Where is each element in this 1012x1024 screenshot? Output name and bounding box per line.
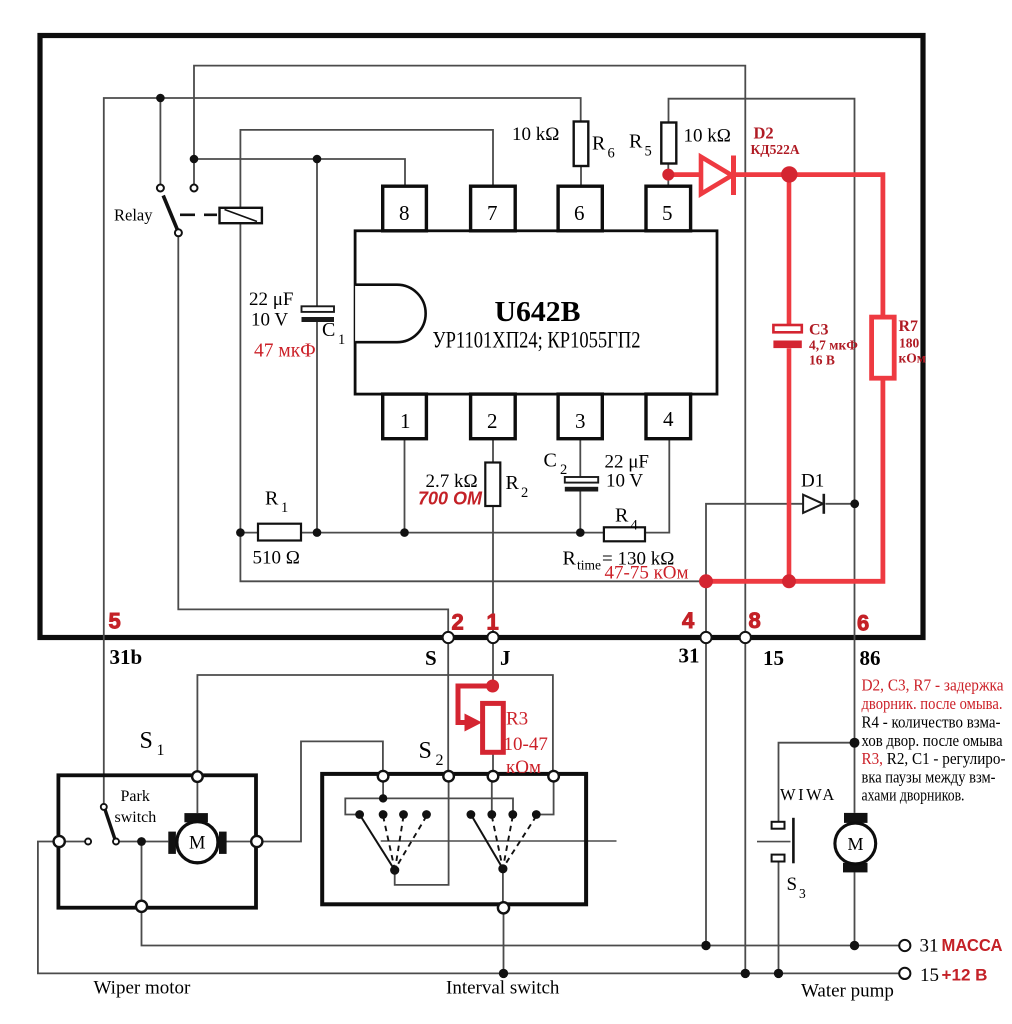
resistor R1: [258, 524, 301, 541]
svg-text:3: 3: [575, 409, 586, 433]
node: park switch to motor junction: [137, 837, 146, 846]
svg-text:86: 86: [860, 646, 881, 670]
svg-text:47-75 кОм: 47-75 кОм: [605, 563, 689, 584]
resistor R7: [872, 317, 895, 378]
wire: relay NO contact to top rail and terminal 15: [194, 66, 745, 970]
wire: R6 bottom to pin 6: [580, 166, 582, 186]
IC pin 2: [471, 394, 516, 439]
label S3: [787, 874, 807, 901]
wire: pin 8 rail: [194, 159, 405, 186]
label R1: [265, 488, 288, 517]
S2 left selector fan: [355, 810, 431, 875]
S1 terminal bottom: [136, 901, 147, 912]
pin number 4 red: [682, 608, 695, 633]
pin number 6 red: [857, 611, 869, 636]
label S2: [419, 738, 444, 769]
svg-text:D1: D1: [801, 471, 824, 492]
svg-text:D2: D2: [754, 124, 774, 143]
value 700 OM red: [418, 489, 483, 509]
resistor R2: [485, 463, 500, 507]
wire: terminal 31 drop to earth line: [705, 581, 707, 945]
wire: R3 bottom to interval switch: [492, 752, 494, 774]
svg-text:5: 5: [662, 201, 673, 225]
svg-text:S: S: [140, 728, 153, 754]
wire: R1 net horizontal to pin 4: [240, 439, 669, 533]
wire: pin 1 drop: [404, 439, 406, 533]
svg-text:M: M: [189, 834, 205, 854]
IC pin 7: [471, 186, 516, 231]
capacitor C3: [773, 325, 801, 348]
value 510 Ohm for R1: [253, 548, 300, 569]
IC U1 body: [355, 231, 717, 394]
S2 terminal 1: [378, 771, 389, 782]
svg-text:180: 180: [899, 336, 920, 351]
relay contact circle left: [157, 185, 164, 192]
S2 right selector fan: [467, 810, 541, 873]
value 22uF 10V for C1: [249, 289, 294, 331]
svg-text:C: C: [322, 319, 335, 341]
S2 terminal bottom: [498, 902, 509, 913]
svg-text:31: 31: [679, 644, 700, 668]
label Water pump: [801, 981, 894, 1002]
motor M wiper: [168, 813, 226, 863]
svg-text:15: 15: [920, 965, 939, 986]
svg-text:КД522А: КД522А: [751, 142, 800, 157]
svg-text:Interval switch: Interval switch: [446, 978, 560, 999]
node: WIWA junction on 86 wire: [850, 738, 860, 748]
node: R1 left: [236, 528, 245, 537]
label R6: [592, 133, 615, 162]
svg-text:D2, C3, R7 - задержка: D2, C3, R7 - задержка: [862, 676, 1005, 695]
label WIWA: [780, 785, 837, 804]
wire red: D2 output rail to R7 and R-time node: [670, 175, 883, 582]
svg-text:2: 2: [521, 485, 528, 501]
interval switch box S2: [322, 774, 586, 904]
label R5: [629, 131, 652, 160]
wire: motor M right brush to S1 right terminal: [226, 841, 251, 843]
node: relay NO / pin8 rail: [190, 155, 199, 164]
wire: R5 top rail over to terminal 86 and water pump: [669, 99, 855, 813]
wire: relay common contact drop: [159, 98, 161, 184]
terminal label 31 MACCA: [920, 935, 1003, 957]
node: C1 bottom: [313, 528, 322, 537]
value 2.7 kOhm for R2: [426, 471, 478, 492]
svg-text:4: 4: [682, 608, 695, 633]
wire: D1 cathode link: [826, 503, 855, 505]
switch S3: [757, 818, 793, 864]
node red: C3 bottom junction: [782, 574, 796, 588]
wire: pin 5 stub: [667, 163, 669, 186]
IC pin 6: [558, 186, 602, 231]
label R2: [506, 472, 529, 501]
svg-text:7: 7: [487, 201, 498, 225]
wire: pin 3 to C2: [579, 439, 581, 477]
wire: S2 input 4 drop: [536, 778, 553, 815]
S2 terminal 4: [548, 771, 559, 782]
svg-text:R: R: [506, 472, 520, 494]
pin name S: [425, 646, 437, 670]
relay arm: [163, 196, 182, 237]
relay actuator dashed link: [180, 214, 217, 217]
svg-text:31: 31: [920, 936, 939, 957]
svg-text:S: S: [425, 646, 437, 670]
wire: C1 branch upper: [316, 159, 318, 306]
park switch contacts: [85, 804, 119, 845]
svg-text:R: R: [563, 548, 577, 570]
resistor R6: [574, 122, 589, 167]
svg-text:6: 6: [608, 146, 615, 162]
svg-text:R: R: [265, 488, 279, 510]
svg-text:M: M: [848, 834, 864, 854]
wire: park switch feed inside S1: [65, 842, 169, 903]
node: S2 input1 junction: [379, 794, 387, 802]
wire: wiper motor bottom to earth line: [142, 908, 900, 946]
svg-text:R: R: [592, 133, 606, 155]
label D1: [801, 471, 824, 492]
pin name 31b: [110, 645, 143, 669]
wire: pin 2 / J wire through R2: [492, 439, 494, 684]
node red: D2 cathode junction: [781, 166, 797, 182]
relay contact circle right: [191, 185, 198, 192]
svg-text:дворник. после омыва.: дворник. после омыва.: [862, 694, 1003, 713]
wire: S2 input 3 drop: [491, 778, 493, 815]
potentiometer R3 red: [458, 680, 503, 753]
svg-text:510 Ω: 510 Ω: [253, 548, 300, 569]
terminal circle 31 on box edge: [700, 632, 711, 643]
svg-text:1: 1: [281, 500, 288, 516]
svg-text:Relay: Relay: [114, 206, 153, 225]
svg-text:R3, R2, C1 - регулиро-: R3, R2, C1 - регулиро-: [862, 749, 1006, 768]
wire: relay coil top to pin 7: [240, 130, 493, 208]
svg-text:switch: switch: [115, 809, 157, 826]
S2 terminal 3: [488, 771, 499, 782]
svg-text:6: 6: [857, 611, 869, 636]
svg-text:10 kΩ: 10 kΩ: [512, 124, 559, 145]
label C3 red: [809, 322, 858, 368]
wire red: C3 branch: [787, 175, 792, 582]
IC pin 4: [646, 394, 691, 439]
wire: motor M top feed: [196, 779, 198, 813]
node: 15 to +12V line: [741, 969, 750, 978]
pin name 31: [679, 644, 700, 668]
IC pin 3: [558, 394, 602, 439]
svg-text:10 V: 10 V: [251, 310, 288, 331]
svg-text:WIWA: WIWA: [780, 785, 837, 804]
wire: C2 to R1 net: [579, 492, 581, 533]
relay coil: [220, 208, 262, 223]
svg-text:4: 4: [663, 407, 674, 431]
svg-text:700 ОМ: 700 ОМ: [418, 489, 483, 509]
wire: wiper motor left terminal to +12V line: [38, 842, 899, 974]
S1 terminal left: [54, 836, 65, 847]
svg-text:5: 5: [109, 609, 121, 634]
svg-text:8: 8: [749, 608, 761, 633]
label Relay: [114, 206, 153, 225]
svg-text:J: J: [500, 646, 511, 670]
wire: wiper motor right to S2 first input: [258, 741, 383, 841]
capacitor C1: [302, 306, 335, 322]
svg-text:22 μF: 22 μF: [605, 452, 650, 473]
svg-text:МАССА: МАССА: [942, 935, 1003, 955]
pin name 86: [860, 646, 881, 670]
IC pin 5: [646, 186, 691, 231]
svg-text:2: 2: [560, 462, 567, 478]
svg-text:Wiper motor: Wiper motor: [94, 978, 192, 999]
svg-text:R: R: [615, 505, 629, 527]
svg-text:C3: C3: [809, 322, 829, 339]
wiper motor box S1: [58, 775, 256, 907]
wire: water pump bottom to earth line: [854, 872, 856, 945]
svg-text:6: 6: [574, 201, 585, 225]
svg-text:Water pump: Water pump: [801, 981, 894, 1002]
svg-text:4,7 мкФ: 4,7 мкФ: [809, 338, 858, 353]
svg-text:31b: 31b: [110, 645, 143, 669]
svg-text:R: R: [629, 131, 643, 153]
IC pin 8: [383, 186, 427, 231]
node red: pin 5 junction: [662, 169, 674, 181]
svg-text:1: 1: [400, 409, 411, 433]
svg-text:15: 15: [763, 646, 784, 670]
svg-text:Park: Park: [121, 788, 150, 805]
wire: C1 branch lower: [316, 322, 318, 533]
wire: D1 anode link: [706, 504, 803, 582]
node: interval to +12V line: [499, 969, 508, 978]
svg-text:4: 4: [631, 518, 639, 534]
diode D2: [701, 156, 734, 196]
S1 terminal right: [251, 836, 262, 847]
node: S3 to +12V line: [774, 969, 783, 978]
svg-text:ахами дворников.: ахами дворников.: [862, 786, 965, 805]
pin number 1 red: [487, 610, 499, 635]
label R4: [615, 505, 639, 534]
value Rtime: [563, 548, 675, 573]
terminal circle J on box edge: [487, 632, 498, 643]
node: C2 bottom: [576, 528, 585, 537]
node: C1 top tap: [313, 155, 322, 164]
wire: interval switch output to +12V line: [503, 908, 505, 974]
node: D1 cathode junction: [850, 499, 859, 508]
svg-text:22 μF: 22 μF: [249, 289, 294, 310]
svg-text:2: 2: [436, 752, 444, 769]
svg-text:2: 2: [452, 610, 464, 635]
svg-text:R3: R3: [506, 709, 528, 730]
pin number 2 red: [452, 610, 464, 635]
resistor R4: [604, 527, 645, 541]
svg-text:3: 3: [799, 886, 806, 901]
label Interval switch: [446, 978, 560, 999]
diode D1: [803, 494, 824, 514]
svg-text:R7: R7: [899, 318, 919, 335]
terminal label 15 +12V: [920, 965, 988, 986]
value 22uF 10V for C2: [605, 452, 650, 492]
wire: relay coil bottom down to R-time node: [240, 223, 706, 581]
svg-text:2: 2: [487, 409, 498, 433]
wire: S3 bottom to +12V line: [778, 861, 780, 973]
resistor R5: [661, 123, 676, 164]
node red: R-time node junction: [699, 574, 713, 588]
svg-text:S: S: [787, 874, 798, 895]
svg-text:+12 В: +12 В: [942, 966, 988, 985]
svg-text:1: 1: [157, 742, 165, 759]
pin name 15: [763, 646, 784, 670]
svg-text:R4 - количество взма-: R4 - количество взма-: [862, 713, 1001, 732]
pin number 8 red: [749, 608, 761, 633]
svg-text:10 V: 10 V: [606, 471, 643, 492]
motor M water pump: [835, 813, 876, 872]
IC U1 name: [433, 297, 641, 353]
terminal circle 15 on box edge: [740, 632, 751, 643]
svg-text:10 kΩ: 10 kΩ: [684, 126, 731, 147]
svg-text:5: 5: [645, 144, 652, 160]
node: 31 to earth line: [701, 941, 710, 950]
wire: S2 right pole to bottom terminal: [502, 869, 504, 903]
svg-text:1: 1: [338, 332, 345, 348]
svg-text:кОм: кОм: [506, 757, 541, 778]
value 10 kOhm for R5: [684, 126, 731, 147]
node: pump to earth line: [850, 941, 859, 950]
IC pin 1: [383, 394, 427, 439]
svg-text:УР1101ХП24; КР1055ГП2: УР1101ХП24; КР1055ГП2: [433, 328, 641, 353]
svg-text:U642B: U642B: [495, 297, 581, 328]
capacitor C2: [565, 477, 598, 492]
label S1: [140, 728, 165, 759]
svg-text:16 В: 16 В: [809, 353, 835, 368]
control unit outer box: [40, 36, 923, 638]
wire: WIWA switch S3 to pump node: [779, 743, 855, 822]
label Wiper motor: [94, 978, 192, 999]
wire: 31b rail from R6 top across to park switch pivot: [104, 98, 581, 804]
pin number 5 red: [109, 609, 121, 634]
svg-text:C: C: [544, 450, 557, 472]
label R7 red: [899, 318, 926, 366]
value 47-75 kOm red: [605, 563, 689, 584]
svg-text:time: time: [577, 558, 601, 573]
wire: S2 wiper stub line: [381, 840, 617, 842]
annotation note block: [862, 676, 1006, 805]
terminal circle S on box edge: [443, 632, 454, 643]
label C1: [322, 319, 345, 348]
pin name J: [500, 646, 511, 670]
wire: S2 input 1 to contact row: [345, 778, 513, 815]
terminal circle 15 +12V: [899, 968, 910, 979]
S1 terminal top: [192, 771, 203, 782]
value 47 mkF red: [254, 341, 316, 362]
svg-text:47 мкФ: 47 мкФ: [254, 341, 316, 362]
svg-text:10-47: 10-47: [504, 734, 548, 755]
svg-text:вка паузы между взм-: вка паузы между взм-: [862, 768, 996, 787]
S2 terminal 2: [443, 771, 454, 782]
value 10 kOhm for R6: [512, 124, 559, 145]
label Park switch: [115, 788, 157, 826]
svg-text:8: 8: [399, 201, 410, 225]
svg-text:S: S: [419, 738, 432, 764]
svg-text:1: 1: [487, 610, 499, 635]
node: pin1 to R1 net: [400, 528, 409, 537]
wire: S wire from relay arm to interval switch: [178, 233, 448, 775]
terminal circle 31 MACCA: [899, 940, 910, 951]
svg-text:хов двор. после омыва: хов двор. после омыва: [862, 731, 1004, 750]
svg-text:кОм: кОм: [899, 351, 926, 366]
label R3 red: [504, 709, 548, 779]
node: relay common / 31b rail: [156, 94, 165, 103]
label D2 red: [751, 124, 800, 158]
label C2: [544, 450, 568, 479]
wire: S2 left pole to input 2: [395, 778, 449, 885]
wire: wiper motor top to S2 fourth input: [197, 675, 553, 774]
